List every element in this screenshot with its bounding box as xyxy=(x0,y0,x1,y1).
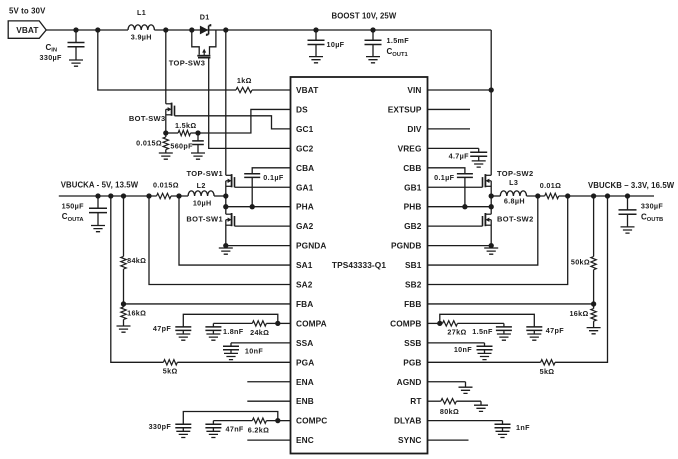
svg-text:PHA: PHA xyxy=(296,202,314,212)
junction VBUCKB at COUTB xyxy=(625,193,630,198)
junction VBUCKA at 84k divider xyxy=(121,193,126,198)
svg-text:GB2: GB2 xyxy=(404,221,422,231)
wire BOT-SW1 source to PGNDA xyxy=(225,220,227,246)
svg-text:GB1: GB1 xyxy=(404,182,422,192)
transistor BOT-SW1 xyxy=(226,213,232,215)
wire GA1 pin to TOP-SW1 gate xyxy=(235,186,291,188)
svg-text:COMPB: COMPB xyxy=(390,318,421,328)
svg-text:4.7µF: 4.7µF xyxy=(449,151,470,160)
svg-text:47pF: 47pF xyxy=(153,324,171,333)
junction input rail at VBAT feed xyxy=(95,27,100,32)
ground 47pF left xyxy=(176,334,190,340)
wire CBA pin to bootstrap cap xyxy=(252,168,290,174)
capacitor 4.7uF xyxy=(478,148,480,152)
capacitor COUT1 1.5mF xyxy=(372,30,374,40)
svg-text:GC1: GC1 xyxy=(296,124,314,134)
svg-text:CBA: CBA xyxy=(296,163,314,173)
svg-text:0.015Ω: 0.015Ω xyxy=(153,180,179,189)
resistor 16k left xyxy=(123,304,125,307)
svg-text:VBUCKB – 3.3V, 16.5W: VBUCKB – 3.3V, 16.5W xyxy=(588,181,675,190)
op-amp U1 TPS43333-Q1 outline xyxy=(291,77,428,454)
svg-text:DLYAB: DLYAB xyxy=(394,416,422,426)
svg-text:FBB: FBB xyxy=(404,299,421,309)
resistor 24k xyxy=(266,322,277,324)
ground AGND xyxy=(459,387,473,393)
wire VBUCKA rail xyxy=(59,195,157,197)
junction VBUCKB at PGB riser xyxy=(605,193,610,198)
wire PHA pin xyxy=(226,206,291,208)
svg-text:1.5nF: 1.5nF xyxy=(472,327,493,336)
ground 16k left xyxy=(117,326,131,332)
junction PGNDB node xyxy=(489,243,494,248)
svg-text:SB2: SB2 xyxy=(405,280,422,290)
svg-text:ENB: ENB xyxy=(296,396,314,406)
resistor 0.015 boost sense xyxy=(165,133,167,137)
svg-text:L3: L3 xyxy=(509,178,518,187)
svg-text:0.1µF: 0.1µF xyxy=(263,173,284,182)
junction COMPC node xyxy=(275,418,280,423)
ground boost sense xyxy=(159,153,173,159)
wire SB2 sense xyxy=(428,196,568,285)
ground 16k right xyxy=(587,328,601,334)
ground 10nF right xyxy=(478,353,492,359)
resistor 1.5k xyxy=(166,132,178,134)
wire CBB pin to bootstrap cap xyxy=(428,168,465,174)
svg-text:L1: L1 xyxy=(137,8,146,17)
wire sense A to L2 xyxy=(171,195,188,197)
wire COMPB pin xyxy=(428,322,440,324)
ground COUT1 xyxy=(366,57,380,63)
svg-text:560pF: 560pF xyxy=(170,141,193,150)
svg-text:PGB: PGB xyxy=(403,357,421,367)
svg-text:330µF: 330µF xyxy=(641,202,664,211)
svg-text:150µF: 150µF xyxy=(62,202,85,211)
wire VREG pin xyxy=(428,147,479,149)
junction VBUCKA at SA2 riser xyxy=(146,193,151,198)
resistor 16k right xyxy=(593,304,595,309)
wire 5k to PGB pin xyxy=(428,361,541,363)
ground 47pF right xyxy=(527,334,541,340)
capacitor COUTA 150uF xyxy=(97,196,99,208)
svg-text:1.5kΩ: 1.5kΩ xyxy=(175,121,197,130)
wire SA2 sense xyxy=(149,196,291,285)
resistor 5k right xyxy=(541,360,556,365)
wire FBA pin xyxy=(124,303,291,305)
wire PGNDB pin xyxy=(428,245,492,247)
svg-text:84kΩ: 84kΩ xyxy=(127,256,146,265)
capacitor 1.5nF xyxy=(503,323,505,327)
svg-text:VBAT: VBAT xyxy=(296,85,318,95)
wire ENC stub xyxy=(247,439,290,441)
wire TOP-SW2 source to BOT-SW2 drain xyxy=(490,181,492,214)
wire BOT-SW2 source to PGNDB xyxy=(490,220,492,246)
svg-text:PHB: PHB xyxy=(404,202,422,212)
svg-text:PGNDA: PGNDA xyxy=(296,241,326,251)
wire L3 to sense B xyxy=(527,195,545,197)
svg-text:ENC: ENC xyxy=(296,435,314,445)
svg-text:1nF: 1nF xyxy=(516,423,530,432)
capacitor 10nF right xyxy=(484,343,486,346)
ground PGNDA xyxy=(219,248,233,254)
svg-text:47pF: 47pF xyxy=(546,326,564,335)
svg-text:0.015Ω: 0.015Ω xyxy=(136,139,162,148)
capacitor 1nF xyxy=(502,421,504,425)
wire ENB stub xyxy=(247,400,290,402)
wire 80k to RT ground xyxy=(456,401,481,405)
junction PHA at switch column xyxy=(223,204,228,209)
wire EXTSUP stub xyxy=(428,108,471,110)
ground 4.7uF xyxy=(472,161,486,167)
ground 330pF xyxy=(176,431,190,437)
svg-text:5V to 30V: 5V to 30V xyxy=(9,7,46,16)
junction 560pF node xyxy=(195,130,200,135)
inductor L3 6.8uH xyxy=(500,191,526,196)
junction rail at D1 cathode xyxy=(223,27,228,32)
ground 10uF xyxy=(309,57,323,63)
svg-text:SYNC: SYNC xyxy=(398,435,421,445)
wire COMPA pin xyxy=(278,322,291,324)
svg-text:SA1: SA1 xyxy=(296,260,313,270)
junction SA1 node xyxy=(176,193,181,198)
svg-text:TOP-SW2: TOP-SW2 xyxy=(497,169,533,178)
junction VBUCKA at COUTA xyxy=(95,193,100,198)
resistor 80k xyxy=(441,399,457,404)
wire L2 to switch node A xyxy=(214,195,226,197)
inductor L2 10uH xyxy=(188,191,214,196)
svg-text:PGA: PGA xyxy=(296,357,314,367)
svg-text:RT: RT xyxy=(410,396,421,406)
svg-text:CBB: CBB xyxy=(403,163,421,173)
svg-text:16kΩ: 16kΩ xyxy=(569,309,588,318)
svg-text:EXTSUP: EXTSUP xyxy=(388,104,422,114)
junction switch node A xyxy=(223,193,228,198)
transistor TOP-SW3 xyxy=(192,30,199,55)
junction PHB at CBB cap xyxy=(462,204,467,209)
resistor 5k left xyxy=(163,360,177,365)
wire BOT-SW3 gate to GC1 xyxy=(175,116,291,129)
wire SSA pin xyxy=(231,342,291,344)
resistor 84k xyxy=(123,196,125,256)
junction boost rail at 10uF xyxy=(313,27,318,32)
ground RT xyxy=(474,405,488,411)
svg-text:DS: DS xyxy=(296,104,308,114)
wire SSB pin xyxy=(428,342,485,344)
svg-text:SSA: SSA xyxy=(296,338,313,348)
svg-text:6.8µH: 6.8µH xyxy=(504,196,525,205)
svg-text:BOT-SW2: BOT-SW2 xyxy=(497,214,534,223)
svg-text:ENA: ENA xyxy=(296,377,314,387)
wire GB1 pin to TOP-SW2 gate xyxy=(428,186,483,188)
wire SB1 sense xyxy=(428,196,538,265)
capacitor CIN 330uF xyxy=(75,30,77,43)
wire ENA stub xyxy=(247,381,290,383)
junction PGNDA node xyxy=(223,243,228,248)
resistor 0.015 sense A xyxy=(157,193,172,198)
wire 5k to PGA pin xyxy=(177,361,290,363)
ground 1.8nF xyxy=(206,334,220,340)
wire boost rail drop to VIN xyxy=(490,30,492,175)
wire CBB cap to PHB xyxy=(464,177,466,206)
resistor 27k xyxy=(440,322,443,324)
junction VIN node xyxy=(489,87,494,92)
ground PGNDB xyxy=(484,248,498,254)
svg-text:1.5mF: 1.5mF xyxy=(387,36,410,45)
wire 1k to VBAT pin xyxy=(252,89,291,91)
svg-text:6.2kΩ: 6.2kΩ xyxy=(248,425,270,434)
junction BOT-SW3 source node xyxy=(163,130,168,135)
junction FBA node xyxy=(121,301,126,306)
svg-text:VIN: VIN xyxy=(407,85,421,95)
svg-text:COMPC: COMPC xyxy=(296,416,327,426)
svg-text:10nF: 10nF xyxy=(245,347,263,356)
wire rail to BOT-SW3 drain xyxy=(165,30,167,104)
svg-text:0.01Ω: 0.01Ω xyxy=(540,181,562,190)
svg-text:TOP-SW3: TOP-SW3 xyxy=(169,59,205,68)
ground 10nF left xyxy=(224,353,238,359)
svg-text:VREG: VREG xyxy=(398,143,422,153)
wire FBB pin xyxy=(428,303,594,305)
transistor TOP-SW1 xyxy=(226,174,232,176)
wire PGNDA pin xyxy=(226,245,291,247)
capacitor 47nF xyxy=(212,421,214,425)
svg-text:AGND: AGND xyxy=(397,377,422,387)
wire PGA route xyxy=(111,196,164,362)
wire TOP-SW1 source to BOT-SW1 drain xyxy=(225,181,227,214)
wire GA2 pin to BOT-SW1 gate xyxy=(235,225,291,227)
wire switch node B to L3 xyxy=(491,195,500,197)
junction rail at D1 anode xyxy=(189,27,194,32)
capacitor 47pF right xyxy=(526,327,542,331)
svg-text:47nF: 47nF xyxy=(226,424,244,433)
svg-text:TPS43333-Q1: TPS43333-Q1 xyxy=(332,260,386,270)
transistor BOT-SW3 xyxy=(166,103,172,105)
svg-text:BOT-SW1: BOT-SW1 xyxy=(186,214,223,223)
svg-text:1.8nF: 1.8nF xyxy=(223,327,244,336)
wire GB2 pin to BOT-SW2 gate xyxy=(428,225,483,227)
ground COUTA xyxy=(91,226,105,232)
svg-text:L2: L2 xyxy=(197,181,206,190)
junction COMPB node xyxy=(437,321,442,326)
svg-text:50kΩ: 50kΩ xyxy=(571,258,590,267)
svg-text:24kΩ: 24kΩ xyxy=(250,328,269,337)
svg-text:27kΩ: 27kΩ xyxy=(447,328,466,337)
svg-text:VBAT: VBAT xyxy=(16,25,38,35)
wire DIV stub xyxy=(428,128,471,130)
svg-text:0.1µF: 0.1µF xyxy=(434,173,455,182)
wire COMPC pin xyxy=(278,420,291,422)
svg-text:5kΩ: 5kΩ xyxy=(163,367,178,376)
svg-text:GA1: GA1 xyxy=(296,182,314,192)
svg-text:1kΩ: 1kΩ xyxy=(237,76,252,85)
capacitor 47pF left xyxy=(175,327,191,331)
svg-text:GA2: GA2 xyxy=(296,221,314,231)
wire RT pin xyxy=(428,400,441,402)
junction VBUCKB at 50k divider xyxy=(591,193,596,198)
wire DLYAB pin xyxy=(428,420,503,422)
transistor TOP-SW2 xyxy=(485,174,491,176)
svg-text:BOT-SW3: BOT-SW3 xyxy=(129,114,166,123)
capacitor 330pF xyxy=(175,424,191,428)
svg-text:16kΩ: 16kΩ xyxy=(127,308,146,317)
resistor 6.2k xyxy=(266,420,277,422)
svg-text:DIV: DIV xyxy=(407,124,421,134)
capacitor 10nF left xyxy=(230,343,232,346)
resistor 0.01 sense B xyxy=(545,193,559,198)
svg-text:10nF: 10nF xyxy=(454,345,472,354)
svg-text:80kΩ: 80kΩ xyxy=(440,407,459,416)
junction rail at BOT-SW3 drain xyxy=(163,27,168,32)
svg-text:D1: D1 xyxy=(200,13,210,22)
wire AGND pin xyxy=(428,382,466,387)
wire PGB route xyxy=(555,196,607,362)
ground CIN xyxy=(69,60,83,66)
junction SB1 node xyxy=(535,193,540,198)
svg-text:SSB: SSB xyxy=(404,338,421,348)
svg-text:10µF: 10µF xyxy=(327,40,345,49)
wire VBAT feed riser xyxy=(98,30,236,90)
wire SA1 sense xyxy=(179,196,291,265)
capacitor CBA 0.1uF xyxy=(244,174,260,178)
diode D1 schottky xyxy=(200,26,209,35)
capacitor COUTB 330uF xyxy=(627,196,629,210)
svg-text:GC2: GC2 xyxy=(296,143,314,153)
junction switch node B xyxy=(489,193,494,198)
svg-text:BOOST 10V, 25W: BOOST 10V, 25W xyxy=(332,12,397,21)
junction FBB node xyxy=(591,301,596,306)
svg-text:330pF: 330pF xyxy=(149,422,172,431)
svg-text:5kΩ: 5kΩ xyxy=(540,367,555,376)
svg-text:FBA: FBA xyxy=(296,299,313,309)
resistor 50k xyxy=(593,196,595,257)
wire DS sense xyxy=(198,109,291,133)
wire SYNC stub xyxy=(428,439,469,441)
svg-text:330µF: 330µF xyxy=(40,53,63,62)
svg-text:TOP-SW1: TOP-SW1 xyxy=(187,169,223,178)
ground 560pF xyxy=(191,153,205,159)
ground 1.5nF xyxy=(497,334,511,340)
wire CBA cap to PHA xyxy=(251,177,253,206)
ground 1nF xyxy=(496,431,510,437)
resistor 1k xyxy=(236,87,252,92)
wire PHB pin xyxy=(428,206,492,208)
svg-text:PGNDB: PGNDB xyxy=(391,241,421,251)
wire COMPB top route xyxy=(440,314,535,327)
ground COUTB xyxy=(621,227,635,233)
junction boost rail at COUT1 xyxy=(370,27,375,32)
ground 47nF xyxy=(206,431,220,437)
svg-text:3.9µH: 3.9µH xyxy=(131,33,152,42)
svg-text:COMPA: COMPA xyxy=(296,318,327,328)
wire VBUCKB rail xyxy=(559,195,654,197)
junction COMPA node xyxy=(275,321,280,326)
inductor L1 3.9uH xyxy=(128,25,154,30)
wire TOP-SW3 gate to GC2 xyxy=(209,58,291,149)
capacitor CBB 0.1uF xyxy=(457,174,473,178)
wire COMPA top route xyxy=(183,314,277,327)
wire VIN pin xyxy=(428,89,492,91)
svg-text:10µH: 10µH xyxy=(193,198,212,207)
svg-text:VBUCKA - 5V, 13.5W: VBUCKA - 5V, 13.5W xyxy=(61,180,139,189)
capacitor 10uF xyxy=(315,30,317,40)
junction PHB at switch column xyxy=(489,204,494,209)
junction PHA at CBA cap xyxy=(250,204,255,209)
junction input rail at CIN xyxy=(73,27,78,32)
junction VBUCKA at PGA riser xyxy=(108,193,113,198)
wire input rail VBAT to L1 xyxy=(46,29,128,31)
svg-text:SB1: SB1 xyxy=(405,260,422,270)
capacitor 560pF xyxy=(197,133,199,141)
junction VBUCKB at SB2 riser xyxy=(565,193,570,198)
capacitor 1.8nF xyxy=(212,323,214,327)
wire COMPC top route xyxy=(183,412,277,425)
svg-text:SA2: SA2 xyxy=(296,280,313,290)
wire input feed to TOP-SW1 drain xyxy=(225,30,227,175)
node VBAT input tag xyxy=(8,21,46,38)
transistor BOT-SW2 xyxy=(485,213,491,215)
wire rail L1 to D1 xyxy=(154,29,491,31)
